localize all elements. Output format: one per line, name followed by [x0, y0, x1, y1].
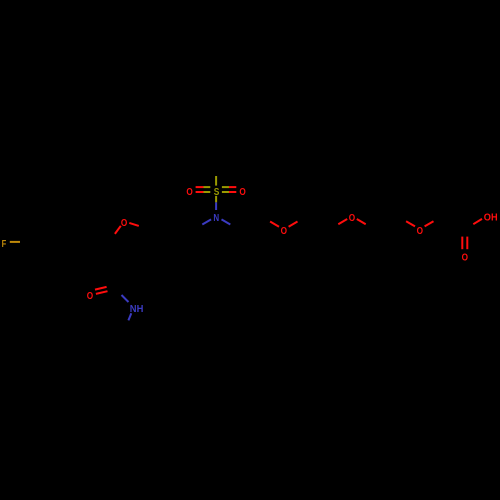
- bond furan O to C7a (red half): [129, 223, 139, 226]
- svg-text:F: F: [2, 239, 7, 250]
- S=O left double bond red halves: [196, 186, 204, 188]
- amide C=O double bond (red halves): [95, 287, 107, 290]
- carboxyl C=O double bond (red halves): [461, 237, 463, 250]
- bond N to benzofuran C6 (blue half): [202, 219, 211, 224]
- bond amide N to methyl (blue half): [128, 313, 131, 320]
- svg-text:O: O: [462, 252, 469, 263]
- S=O right double bond red halves: [229, 186, 236, 188]
- S=O left double bond olive halves: [204, 186, 211, 188]
- bond N to S (blue half): [215, 202, 217, 210]
- bond O3 to CH2 left (red half): [406, 221, 415, 226]
- S=O right double bond olive halves: [222, 186, 229, 188]
- svg-text:NH: NH: [130, 304, 144, 315]
- svg-text:OH: OH: [484, 212, 498, 223]
- svg-text:O: O: [239, 187, 246, 198]
- bond F to phenyl C4' (gold half): [10, 241, 20, 243]
- bond O1 to CH2 left (red half): [270, 222, 279, 227]
- bond amide C to N (blue half): [122, 295, 129, 302]
- svg-text:O: O: [349, 213, 356, 224]
- bond furan O to C2 (red half): [115, 226, 121, 234]
- bond O2 to CH2 left (red half): [338, 219, 347, 224]
- bond S to N (olive half): [215, 196, 217, 202]
- svg-text:O: O: [121, 218, 128, 229]
- svg-text:O: O: [281, 226, 288, 237]
- svg-text:O: O: [417, 226, 424, 237]
- bond O3 to CH2 right (red half): [425, 221, 434, 226]
- svg-text:N: N: [213, 213, 219, 224]
- bond S to methyl (olive half): [215, 176, 217, 186]
- bond O1 to CH2 right (red half): [289, 222, 298, 227]
- svg-text:O: O: [87, 291, 94, 302]
- svg-text:O: O: [186, 187, 193, 198]
- bond N to chain CH2 (blue half): [222, 219, 231, 224]
- bond carboxyl C to OH (red half): [473, 219, 482, 224]
- bond O2 to CH2 right (red half): [357, 219, 366, 224]
